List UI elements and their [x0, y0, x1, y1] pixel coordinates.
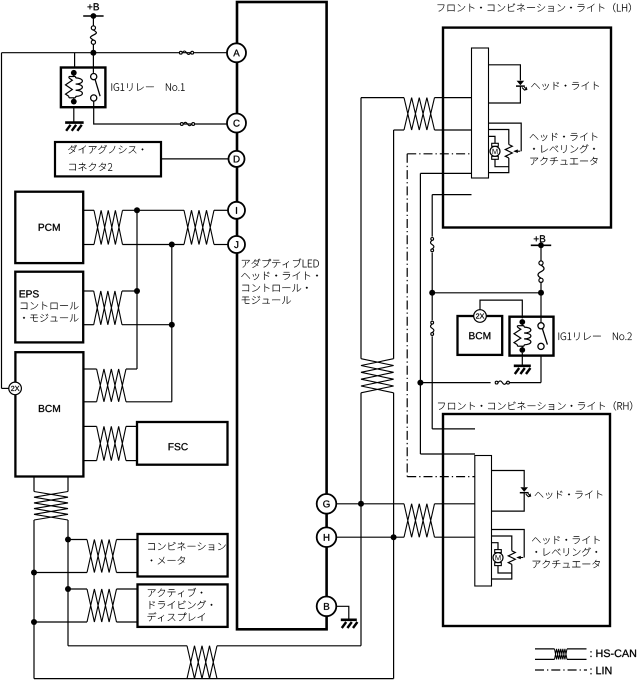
- wire meter CAN-H: [68, 539, 87, 541]
- wire fuse to junction (right): [540, 282, 542, 292]
- FSC label: [169, 443, 188, 450]
- twisted pair BCM-FSC: [97, 426, 126, 460]
- LED headlight (RH): [520, 487, 528, 492]
- ground G2 (module B pin): [341, 618, 357, 621]
- LH front combination light box: [443, 28, 611, 228]
- junction EPS CAN-L: [169, 322, 175, 328]
- wire display CAN-L: [34, 621, 87, 623]
- EPS label: [20, 290, 39, 297]
- node J: [228, 236, 245, 253]
- connector inline on +B feed lower: [431, 321, 434, 324]
- junction EPS CAN-H: [134, 288, 140, 294]
- node G: [317, 494, 337, 514]
- node A: [227, 43, 246, 62]
- wire relay2 output: [420, 382, 490, 384]
- wire relay switch to C: [94, 102, 228, 125]
- module label text: [242, 259, 319, 268]
- RH front combination light label: [438, 401, 632, 410]
- junction IG feed/relay2 output: [417, 380, 423, 386]
- twisted pair right vertical run: [361, 359, 394, 393]
- wire RH actuator motor feed: [492, 543, 499, 550]
- wire +B supply horizontal: [432, 292, 541, 294]
- junction display CAN-L: [31, 619, 37, 625]
- wire CAN-H top to LH: [361, 97, 404, 99]
- wire EPS CAN-H: [83, 290, 94, 292]
- active driving display label: [148, 588, 202, 597]
- wire RH headlight return: [492, 493, 525, 511]
- connector 2X circle (BCM right): [474, 310, 487, 323]
- node B: [317, 597, 337, 617]
- active driving display box: [138, 584, 228, 627]
- wire LH headlight feed: [489, 65, 521, 81]
- relay coil branch: [73, 73, 75, 77]
- wire CAN right vertical x68: [67, 520, 69, 646]
- connector 2X circle (BCM left): [9, 382, 22, 395]
- wire relay2 coil to ground: [521, 353, 523, 365]
- wire meter CAN-L: [34, 572, 87, 574]
- legend LIN text: [591, 667, 612, 674]
- relay coil inductor: [75, 77, 77, 78]
- potentiometer (RH leveling): [508, 551, 515, 565]
- wire BCM bottom CAN stubs: [33, 477, 35, 492]
- relay switch blade: [95, 80, 100, 97]
- wire A-line: far-left to node A: [2, 52, 228, 54]
- relay coil branch: [521, 322, 523, 326]
- connector inline on A wire: [179, 51, 182, 54]
- ground G1 (relay No.1): [65, 121, 84, 124]
- wire +B feed vertical upper: [431, 195, 433, 237]
- wire LIN vertical: [406, 154, 408, 477]
- relay IG1 No.1 box: [61, 68, 106, 108]
- motor M (LH leveling): [492, 143, 499, 146]
- wire +B feed vertical lower: [431, 336, 433, 429]
- wire RH actuator return: [498, 566, 512, 573]
- twisted pair at RH entry: [404, 504, 435, 537]
- EPS control module box: [15, 272, 83, 343]
- FSC box: [137, 422, 228, 465]
- junction meter CAN-L: [31, 570, 37, 576]
- LED headlight (LH): [517, 81, 525, 86]
- arrow to pot (LH): [515, 150, 521, 152]
- wire +B junction to relay2 switch: [540, 293, 542, 328]
- wire display CAN-H: [68, 588, 87, 590]
- twisted pair PCM: [94, 210, 123, 244]
- diagnosis connector 2 label: [68, 145, 143, 154]
- wire CAN-L bus vertical x171.8: [171, 245, 173, 402]
- wire G to RH light CAN-H: [336, 503, 404, 505]
- junction display CAN-H: [65, 586, 71, 592]
- potentiometer (LH leveling): [505, 145, 512, 159]
- relay IG1 No.1 label: [112, 83, 185, 91]
- combination meter box: [138, 534, 228, 577]
- power +B (top left) symbol: [83, 15, 103, 17]
- wire BCM to FSC lower: [83, 460, 96, 462]
- wire CAN left vertical x34: [33, 520, 35, 679]
- wire IG feed RH horizontal: [420, 453, 475, 455]
- wire +B feed vertical mid: [431, 253, 433, 321]
- LH headlight label: [531, 82, 599, 90]
- wire LIN RH horizontal: [407, 476, 475, 478]
- wire LH actuator motor feed: [489, 136, 496, 143]
- adaptive LED headlight control module U1 box: [237, 2, 327, 629]
- wire bottom CAN-H horizontal: [68, 645, 187, 647]
- wire RH actuator pot top: [492, 536, 512, 551]
- arrow to pot (RH): [518, 557, 524, 559]
- wire BCM to FSC upper: [83, 425, 96, 427]
- wire +B feed RH horizontal: [432, 428, 475, 430]
- legend HS-CAN lines: [535, 648, 555, 650]
- RH front combination light box: [443, 414, 610, 626]
- twisted pair BCM bottom (vertical): [34, 492, 68, 521]
- wire BCM CAN-L to bus: [83, 401, 96, 403]
- wire B to ground: [336, 606, 349, 619]
- PCM label: [39, 224, 60, 231]
- LH connector rectangle: [472, 48, 489, 178]
- junction G/CAN-H: [358, 501, 364, 507]
- twisted pair meter: [87, 540, 117, 573]
- relay coil inductor: [523, 326, 525, 327]
- twisted pair bottom run: [187, 646, 217, 679]
- junction meter CAN-H: [65, 537, 71, 543]
- connector inline on +B feed upper: [431, 238, 434, 241]
- RH headlight label: [535, 491, 603, 499]
- node junction +B/relay coil/switch: [90, 50, 96, 56]
- wire H to RH light CAN-L: [336, 536, 404, 538]
- power +B (right) symbol: [531, 244, 551, 246]
- node D: [229, 151, 245, 167]
- RH connector rectangle: [475, 456, 492, 587]
- relay coil resistor: [66, 78, 73, 97]
- node C: [227, 114, 246, 133]
- ground G3 (relay No.2): [514, 364, 531, 367]
- BCM box (right): [458, 316, 503, 355]
- relay coil resistor: [514, 327, 521, 345]
- diagnosis connector 2 box: [55, 142, 161, 176]
- twisted pair at LH entry: [404, 98, 435, 130]
- wire +B feed LH horizontal: [432, 194, 471, 196]
- twisted pair EPS: [94, 291, 122, 325]
- wire coil tap down: [74, 53, 76, 68]
- wire far-left vertical drop: [1, 53, 3, 389]
- legend HS-CAN text: [591, 650, 637, 658]
- relay IG1 No.2 box: [510, 317, 554, 356]
- wire PCM CAN-H to I: [83, 209, 94, 211]
- junction +B feed/+B supply: [429, 290, 435, 296]
- connector inline on relay2 output: [495, 381, 498, 384]
- wire BCM2 to relay2 coil: [480, 300, 522, 318]
- LH front combination light label: [438, 3, 631, 12]
- wire IG feed vertical: [419, 173, 421, 454]
- wire EPS CAN-L: [83, 324, 94, 326]
- wire LH actuator return: [495, 159, 509, 166]
- relay IG1 No.2 label: [559, 333, 632, 341]
- wire bottom CAN-L horizontal: [34, 678, 394, 680]
- BCM box (left): [15, 352, 83, 476]
- node H: [317, 527, 337, 547]
- combination meter label: [148, 542, 225, 550]
- wire RH headlight feed: [492, 471, 525, 488]
- RH actuator label: [532, 536, 600, 544]
- twisted pair display: [87, 589, 117, 622]
- LH actuator label: [530, 133, 598, 141]
- wire LH actuator pot top: [489, 130, 509, 145]
- junction PCM CAN-H: [134, 207, 140, 213]
- node junction +B No.2: [538, 290, 544, 296]
- relay switch blade: [542, 329, 547, 345]
- wire BCM CAN-H to bus: [83, 368, 96, 370]
- fuse F2 (fusible link): [539, 261, 543, 265]
- wire LH headlight return: [489, 86, 521, 103]
- wire CAN-H bus vertical x137: [136, 210, 138, 369]
- wire relay coil to ground: [73, 107, 75, 122]
- fuse F1 (fusible link): [91, 26, 95, 30]
- BCM label: [39, 405, 60, 412]
- wire CAN-L top to LH: [394, 129, 404, 131]
- junction H/CAN-L: [391, 534, 397, 540]
- legend HS-CAN twisted bundle: [555, 649, 568, 660]
- wire IG feed LH horizontal: [420, 172, 471, 174]
- junction PCM CAN-L: [169, 242, 175, 248]
- wire PCM CAN-L to J: [83, 244, 94, 246]
- wire switch top: [92, 53, 94, 73]
- wire +B to fuse (right): [540, 245, 542, 261]
- wire LH actuator pot wiper: [489, 123, 522, 151]
- wire fuse to junction: [92, 44, 94, 52]
- twisted pair BCM-bus: [97, 369, 126, 402]
- wire +B to fuse: [92, 16, 94, 26]
- motor M (RH leveling): [495, 550, 502, 553]
- connector inline on C wire: [180, 123, 183, 126]
- BCM (right) label: [469, 332, 490, 339]
- node I: [228, 202, 245, 219]
- legend LIN line: [535, 669, 587, 671]
- wire diag to node D: [161, 158, 229, 160]
- wire RH actuator pot wiper: [492, 530, 525, 558]
- relay switch contacts: [91, 74, 97, 80]
- twisted pair PCM-module: [184, 210, 214, 244]
- wire LIN LH horizontal: [407, 153, 471, 155]
- relay switch contacts: [538, 323, 544, 329]
- power +B (right) label: [534, 235, 546, 242]
- PCM box: [15, 192, 83, 263]
- power +B (top left) label: [88, 3, 100, 10]
